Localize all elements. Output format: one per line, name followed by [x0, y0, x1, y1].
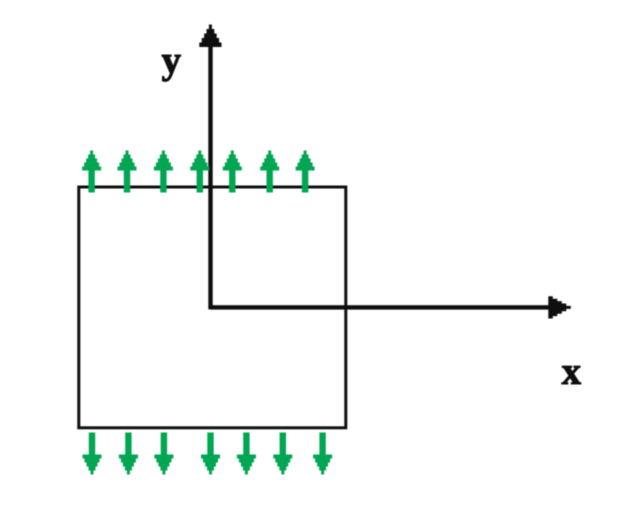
y-axis arrowhead	[199, 25, 221, 48]
bottom tension arrow 1	[83, 433, 102, 475]
square plate	[79, 187, 346, 428]
top tension arrow 4	[190, 151, 209, 193]
bottom tension arrow 4	[201, 433, 220, 475]
top tension arrow 7	[296, 151, 315, 193]
top tension arrow 3	[154, 151, 173, 193]
label y	[162, 55, 181, 81]
top tension arrow 1	[82, 151, 101, 193]
top tension arrow 6	[260, 151, 279, 193]
bottom tension arrow 5	[237, 433, 256, 475]
top tension arrow 2	[118, 151, 137, 193]
bottom tension arrow 3	[154, 433, 173, 475]
label x	[562, 366, 581, 384]
top tension arrow 5	[223, 151, 242, 193]
bottom tension arrow 2	[119, 433, 138, 475]
bottom tension arrow 7	[313, 433, 332, 475]
y-axis line	[208, 40, 212, 309]
bottom tension arrow 6	[273, 433, 292, 475]
x-axis line	[210, 305, 551, 309]
x-axis arrowhead	[548, 296, 571, 318]
